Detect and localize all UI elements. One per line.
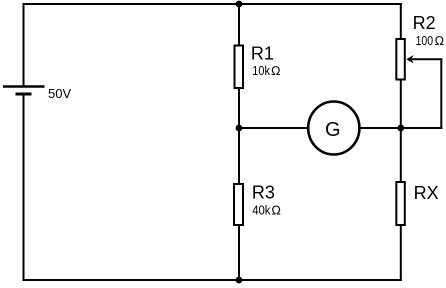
wire: middle branch, middle node down to R3 (238, 128, 240, 184)
battery B1 short plate (-) (16, 93, 32, 96)
node: middle junction dot (bridge node A) (236, 125, 243, 132)
potentiometer R2 wiper arrow line (410, 58, 442, 60)
svg-text:100: 100 (416, 34, 434, 48)
svg-text:Ω: Ω (435, 34, 445, 48)
node: right junction dot (bridge node B) (397, 125, 404, 132)
resistor R3 body (234, 184, 243, 225)
battery B1 long plate (+) (3, 85, 45, 88)
wire: wiper vertical return down to bridge node B (440, 59, 442, 130)
svg-text:50V: 50V (48, 86, 71, 101)
galvanometer U1 circle (308, 102, 359, 155)
resistor R1 body (235, 46, 244, 89)
svg-text:Ω: Ω (271, 64, 281, 78)
wire: middle branch, R1 to middle node (238, 88, 240, 129)
wire: middle node to galvanometer left terminal (239, 127, 308, 129)
wire: bottom horizontal rail (23, 279, 402, 281)
resistor RX body (396, 182, 405, 225)
svg-text:10k: 10k (252, 64, 270, 78)
svg-text:RX: RX (414, 183, 439, 203)
node: top junction dot (236, 1, 243, 8)
potentiometer R2 wiper arrowhead (406, 55, 413, 63)
wire: left vertical (battery - down to bottom-left corner) (23, 94, 25, 281)
wire: galvanometer right terminal to right branch and wiper return (359, 127, 442, 129)
node: bottom junction dot (236, 277, 243, 284)
potentiometer R2 body (396, 39, 405, 80)
svg-text:G: G (325, 119, 341, 141)
wire: top horizontal rail (23, 3, 402, 5)
wire: right branch, R2 down to bridge node B and on to RX (400, 79, 402, 182)
svg-text:R2: R2 (413, 13, 436, 33)
wire: middle branch, R3 down to bottom node (238, 225, 240, 281)
wire: right branch, RX down to bottom rail (400, 225, 402, 281)
wire: left vertical (top, battery + to top-left corner) (23, 3, 25, 87)
svg-text:R1: R1 (251, 44, 274, 64)
svg-text:40k: 40k (252, 204, 271, 218)
wire: right branch, top rail down to R2 (400, 3, 402, 40)
svg-text:Ω: Ω (271, 204, 281, 218)
svg-text:R3: R3 (252, 182, 275, 202)
wire: middle branch, top node down to R1 (238, 3, 240, 46)
